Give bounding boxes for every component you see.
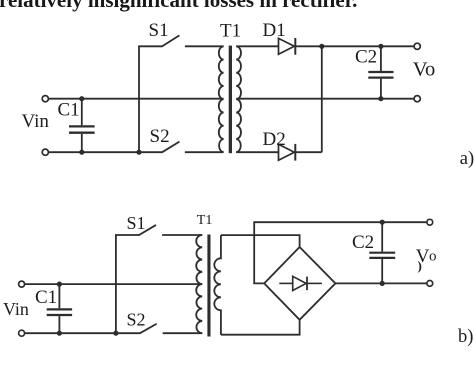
wire: Vin+ middle rail (a): [45, 98, 223, 100]
label S1 (b): [127, 213, 146, 233]
wire: Vin+ middle rail (b): [22, 283, 203, 285]
wire: secondary top to bridge top (b): [221, 235, 300, 247]
svg-text:S2: S2: [150, 126, 170, 147]
node: C1 bottom junction (a): [79, 150, 84, 155]
label C1 (b): [35, 287, 57, 308]
svg-text:a): a): [460, 149, 474, 169]
terminal: Vin- (b): [19, 330, 25, 336]
label Vo (a): [413, 59, 435, 81]
node: C1 top junction (a): [79, 96, 84, 101]
terminal: Vin- (a): [42, 149, 48, 155]
transformer T1 secondary winding (a): [236, 46, 241, 152]
label Vin (b): [3, 299, 29, 319]
label b): [458, 327, 473, 347]
transformer T1 core (b): [207, 235, 210, 337]
svg-text:T1: T1: [197, 213, 213, 228]
node: rail-to-bottom junction (b): [113, 331, 118, 336]
svg-text:D1: D1: [263, 20, 286, 41]
svg-text:o: o: [429, 248, 437, 264]
capacitor C1 (a): [69, 99, 95, 153]
node: D2 riser junction on top rail (a): [319, 44, 324, 49]
switch S1 (a): [162, 36, 223, 47]
transformer T1 primary winding (a): [219, 46, 224, 152]
node: rail-to-bottom junction (a): [136, 150, 141, 155]
label S2 (b): [127, 310, 146, 330]
svg-text:S1: S1: [149, 20, 169, 41]
terminal: Vo+ (b): [427, 219, 433, 225]
wire: bridge right corner to output (b): [335, 282, 429, 284]
diode D2 (a): [279, 144, 322, 161]
svg-text:C2: C2: [355, 47, 377, 68]
label D1 (a): [263, 20, 286, 41]
clipped paragraph text at top: [0, 0, 357, 11]
svg-text:C2: C2: [352, 232, 374, 253]
wire: secondary top to D1 anode (a): [236, 45, 278, 47]
svg-text:b): b): [458, 327, 473, 347]
label C1 (a): [58, 100, 80, 121]
label T1 (a): [220, 21, 241, 42]
wire: Vin- bottom rail left segment (a): [45, 151, 162, 153]
terminal: Vin+ (a): [42, 96, 48, 102]
wire: D2 cathode riser to top rail (a): [321, 46, 323, 152]
terminal: Vin+ (b): [19, 281, 25, 287]
wire: secondary bottom to D2 anode (a): [236, 151, 278, 153]
label S1 (a): [149, 20, 169, 41]
svg-text:T1: T1: [220, 21, 241, 42]
node: C2 bottom junction (a): [378, 96, 383, 101]
svg-text:Vo: Vo: [413, 59, 435, 81]
label C2 (a): [355, 47, 377, 68]
wire: Vin- bottom rail left segment (b): [22, 332, 140, 334]
label Vin (a): [22, 111, 50, 132]
switch S1 (b): [139, 225, 202, 235]
svg-text:): ): [418, 258, 422, 273]
label C2 (b): [352, 232, 374, 253]
label D2 (a): [263, 129, 286, 150]
capacitor C2 (b): [369, 222, 395, 283]
transformer T1 primary winding (b): [196, 235, 202, 333]
svg-text:S1: S1: [127, 213, 146, 233]
node: C2 top junction (b): [380, 220, 385, 225]
node: C2 bottom junction (b): [380, 281, 385, 286]
transformer T1 secondary winding (b): [214, 235, 221, 335]
svg-text:Vin: Vin: [3, 299, 29, 319]
node: C1 bottom junction (b): [57, 331, 62, 336]
switch S2 (a): [162, 142, 223, 152]
terminal: Vo- (b): [427, 281, 433, 287]
terminal: Vo- (a): [414, 96, 420, 102]
wire: secondary center tap to output (a): [236, 98, 417, 100]
svg-text:C1: C1: [58, 100, 80, 121]
label a): [460, 149, 474, 169]
switch S2 (b): [140, 324, 202, 333]
svg-text:S2: S2: [127, 310, 146, 330]
svg-text:D2: D2: [263, 129, 286, 150]
diode D1 (a): [279, 38, 322, 55]
node: C1 top junction (b): [57, 282, 62, 287]
label output brace mark (b): [418, 258, 422, 273]
label Vo (b): [416, 246, 437, 267]
terminal: Vo+ (a): [414, 43, 420, 49]
label T1 (b): [197, 213, 213, 228]
wire: secondary bottom to bridge bottom (b): [221, 319, 300, 335]
svg-text:C1: C1: [35, 287, 57, 308]
capacitor C1 (b): [47, 284, 72, 333]
transformer T1 core (a): [229, 46, 232, 154]
wire: top rail D1 to output terminal (a): [322, 45, 417, 47]
wire: bridge left corner riser to top output rail (b): [254, 222, 430, 283]
bridge inner diode (b): [279, 276, 322, 290]
label S2 (a): [150, 126, 170, 147]
wire: switch rail vertical (a): [139, 46, 162, 152]
node: C2 top junction (a): [378, 44, 383, 49]
capacitor C2 (a): [368, 46, 393, 98]
wire: switch rail vertical (b): [116, 235, 139, 333]
svg-text:Vin: Vin: [22, 111, 50, 132]
bridge rectifier diamond (b): [264, 247, 335, 320]
